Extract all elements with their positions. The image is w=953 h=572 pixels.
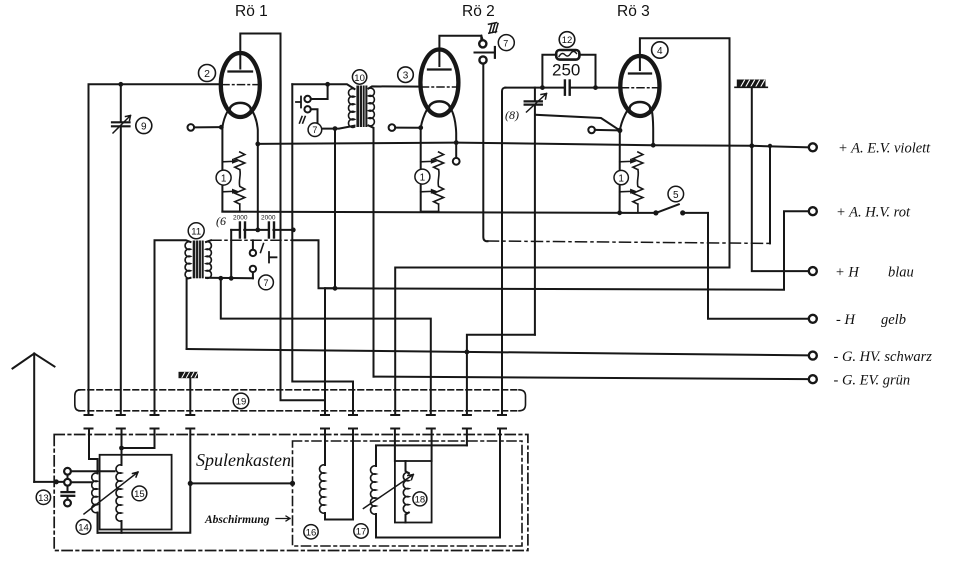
trimmer capacitor 9 — [112, 84, 131, 415]
wire transformer11 bottom to coil18 line (y=318.6) — [221, 278, 431, 415]
wire shield bus to right box — [190, 481, 295, 486]
svg-text:- G. HV. schwarz: - G. HV. schwarz — [834, 349, 933, 365]
node dot ground riser on violett line — [749, 143, 754, 148]
svg-text:blau: blau — [888, 264, 914, 280]
wire transformer11 right-top (dash-dot to cap6 net) — [206, 240, 292, 242]
label circle 1 (Rö3) — [614, 170, 628, 184]
wire schwarz junction down to band — [466, 352, 468, 415]
terminal +H blau — [809, 264, 914, 280]
svg-text:+ A. H.V. rot: + A. H.V. rot — [836, 205, 911, 221]
svg-text:9: 9 — [141, 122, 147, 133]
text Abschirmung with arrow — [204, 514, 290, 526]
label circle 19 — [233, 393, 249, 409]
node dot cathode Rö1 on A-line — [255, 142, 260, 147]
wire transformer11 left-bottom to schwarz bus — [187, 278, 191, 349]
jack 7 (I) label I — [261, 244, 264, 253]
tube Rö2 cathode right leg — [452, 110, 460, 165]
svg-text:1: 1 — [221, 173, 227, 184]
wire coil17 bottom — [375, 514, 377, 538]
jack 7 (I) upper contact — [250, 240, 256, 256]
wire Rö3 grid line — [505, 87, 621, 89]
transformer 11 core — [193, 241, 204, 279]
wire into coil15 top (junction of wires 121.5 and 154.5) — [119, 429, 154, 466]
svg-text:16: 16 — [306, 528, 317, 539]
grid-bias line (y=211.5 bus) — [222, 212, 656, 213]
antenna connector 13 — [34, 468, 74, 507]
wire violett riser — [769, 146, 771, 244]
wire cap6 net jog to rot bus — [292, 240, 333, 288]
label circle 7 (III switch) — [498, 35, 514, 51]
label circle 3 — [398, 67, 414, 83]
coil 18 box — [395, 461, 432, 523]
jack 7 (I) lower contact — [250, 266, 256, 279]
coil 18 — [403, 461, 408, 523]
label circle 10 — [352, 70, 366, 84]
label circle 16 — [304, 525, 318, 539]
label circle 7 (jack I) — [259, 275, 274, 290]
tube Rö3 envelope — [620, 56, 659, 116]
terminal -G.HV schwarz — [809, 349, 932, 365]
wire tube Rö2 plate to switch III — [439, 36, 481, 50]
wire into coil18 box — [394, 429, 396, 462]
plug tick bars upper row (at band) — [85, 414, 507, 416]
svg-text:(8): (8) — [505, 108, 519, 122]
label circle 4 — [652, 42, 668, 58]
jack 7 (II) frame mark — [296, 97, 301, 108]
label circle 17 — [354, 524, 368, 538]
label circle 1 (Rö1) — [216, 170, 231, 185]
svg-text:2000: 2000 — [261, 215, 276, 222]
svg-text:250: 250 — [552, 61, 580, 80]
cable band 19 lower dashed line — [79, 410, 520, 412]
wire grid bus Rö1 left — [89, 82, 221, 415]
wire grid-line corner down to band — [502, 88, 505, 415]
switch 7 (III) — [475, 23, 499, 64]
wire switch III down to dash bus — [483, 64, 487, 242]
wire into coil14 top — [89, 429, 98, 474]
cathode bus (violett line) — [258, 143, 809, 148]
trimmer capacitor 8 — [525, 88, 547, 335]
coil 16 — [320, 465, 325, 513]
coupling arrow coils 14/15 — [84, 472, 138, 514]
tube Rö3 cathode — [630, 102, 651, 116]
svg-text:+ A. E.V. violett: + A. E.V. violett — [838, 141, 931, 157]
series capacitor in grid line — [565, 81, 570, 95]
svg-text:Rö 3: Rö 3 — [617, 3, 650, 20]
wire connector13 to coil14 — [71, 481, 92, 483]
svg-text:Spulenkasten: Spulenkasten — [196, 450, 291, 470]
transformer 10 primary winding — [349, 89, 355, 128]
svg-text:14: 14 — [78, 523, 89, 534]
label circle 13 — [36, 490, 50, 504]
wire trimmer 8 to Rö3 grid junction — [536, 115, 620, 131]
svg-text:10: 10 — [354, 73, 365, 84]
fuse 12 — [540, 50, 598, 90]
svg-text:1: 1 — [420, 172, 426, 183]
svg-text:3: 3 — [403, 71, 409, 82]
wire tube Rö1 plate to top bus — [240, 34, 280, 54]
wire coil16 bottom to riser — [325, 429, 353, 520]
svg-text:(6: (6 — [216, 214, 226, 228]
label circle 12 — [559, 32, 575, 48]
wire ground to blau terminal — [752, 87, 809, 271]
svg-text:13: 13 — [38, 493, 49, 504]
potentiometer 1 of Rö3 — [620, 130, 643, 212]
label circle 9 — [136, 118, 152, 134]
terminal +A.EV violett — [809, 141, 931, 157]
tube Rö1 cathode — [230, 103, 251, 117]
svg-text:7: 7 — [312, 125, 317, 135]
wire into coil16 top — [324, 429, 326, 466]
svg-text:2000: 2000 — [233, 215, 248, 222]
jack 7 (II) label II — [300, 117, 306, 124]
wire transformer10 secondary bottom to gruen bus — [369, 126, 374, 377]
chassis hatch symbol at band — [179, 372, 199, 415]
tube Rö1 cathode right leg — [253, 111, 258, 228]
terminal -G.EV gruen — [809, 372, 910, 388]
label circle 11 — [188, 223, 204, 239]
tube Rö2 grid cap terminal — [389, 124, 424, 131]
wire transformer10 secondary top to Rö2 grid — [369, 86, 421, 88]
tube Rö1 anode — [229, 53, 253, 72]
wire dash bus to violett riser (dash-dot) — [488, 241, 771, 243]
transformer 10 core — [356, 86, 367, 128]
tube Rö3 cathode left leg — [620, 110, 628, 130]
svg-text:7: 7 — [263, 278, 268, 288]
potentiometer 1 of Rö2 — [421, 128, 444, 212]
wire band into coil18 box right — [431, 429, 433, 462]
transformer 10 secondary winding — [369, 88, 375, 126]
svg-text:19: 19 — [236, 397, 247, 408]
wire rot bus down to band — [324, 288, 326, 415]
schwarz bus (G.HV) — [187, 349, 809, 355]
transformer 11 right winding — [206, 242, 211, 279]
cable band 19 upper dashed line — [79, 389, 520, 391]
shield inner box right (dash-dot) — [293, 441, 523, 546]
svg-text:4: 4 — [657, 46, 663, 57]
wire right riser to bottom bus — [376, 429, 500, 538]
tube Rö2 cathode — [429, 101, 450, 115]
svg-text:5: 5 — [673, 190, 679, 201]
plug tick bars lower row (above boxes) — [85, 428, 507, 430]
coil 17 — [371, 466, 376, 514]
wire schwarz stub in box — [466, 429, 468, 446]
wire tube Rö3 plate to top bus and down — [640, 38, 730, 267]
tube Rö2 cathode left leg — [421, 110, 427, 128]
svg-text:- H: - H — [836, 312, 856, 328]
tube Rö3 cathode right leg — [651, 111, 656, 148]
terminal -H gelb — [809, 312, 906, 328]
tube Rö2 grid (dash-dot) — [422, 86, 458, 88]
tube Rö1 grid (dash-dot) — [222, 84, 259, 86]
wire cap6/jack net vertical — [292, 84, 353, 415]
jack 7 (II) lower contact — [304, 106, 333, 129]
svg-text:gelb: gelb — [881, 312, 906, 328]
svg-text:+ H: + H — [835, 264, 860, 280]
svg-text:17: 17 — [356, 527, 367, 538]
wire switch 5 to gelb terminal — [683, 213, 809, 319]
wire transformer10 primary bottom — [333, 126, 355, 289]
label circle 14 — [76, 520, 91, 535]
antenna symbol — [13, 354, 55, 482]
coil 14 — [92, 473, 98, 513]
tube Rö1 cathode left leg — [222, 111, 227, 128]
gruen bus (G.EV) — [374, 377, 809, 380]
wire transformer11 right-bottom node — [206, 276, 253, 281]
wire transformer10 primary top — [292, 82, 354, 89]
switch 5 — [617, 204, 685, 215]
svg-text:7: 7 — [503, 38, 508, 48]
svg-text:Rö 2: Rö 2 — [462, 3, 495, 20]
Spulenkasten outer box (dash-dot) — [54, 435, 528, 551]
node dot violett riser — [768, 144, 772, 148]
wire coil14 bottom — [97, 513, 99, 533]
jack 7 (II) upper contact — [304, 84, 327, 102]
wire coil15 bottom — [121, 521, 123, 533]
jack 7 (I) frame mark — [269, 252, 277, 263]
wire box bottom bus — [98, 429, 191, 533]
tube Rö2 anode — [428, 50, 451, 70]
label circle 18 — [413, 492, 427, 506]
wire transformer11 left-top to band — [155, 240, 191, 415]
tube Rö1 envelope — [221, 53, 260, 117]
svg-text:- G. EV. grün: - G. EV. grün — [834, 372, 911, 388]
label circle 7 (jack II) — [308, 123, 322, 137]
tube Rö3 anode — [629, 56, 651, 74]
label circle 2 — [199, 65, 216, 82]
anode supply bus (rot) — [325, 211, 809, 290]
svg-text:18: 18 — [415, 495, 426, 506]
label circle 1 (Rö2) — [415, 169, 430, 184]
svg-text:2: 2 — [204, 68, 210, 80]
node dot shield bus left — [188, 481, 193, 486]
transformer 11 left winding — [185, 242, 190, 279]
svg-text:Rö 1: Rö 1 — [235, 3, 268, 20]
svg-text:12: 12 — [562, 35, 573, 46]
tube Rö3 grid cap terminal — [588, 127, 622, 134]
coil 15 — [116, 465, 121, 521]
coil box left (solid) — [100, 455, 172, 530]
potentiometer 1 of Rö1 — [222, 128, 244, 212]
label circle 5 — [668, 186, 684, 202]
wire cap6-left riser — [230, 230, 232, 278]
label circle 15 — [132, 486, 147, 501]
tube Rö3 grid (dash-dot) — [622, 87, 659, 89]
coupling arrow coils 17/18 — [363, 475, 413, 509]
ground symbol (hatched) — [735, 80, 767, 88]
tube Rö1 grid cap terminal — [188, 124, 224, 131]
cable band 19 right end — [519, 390, 526, 411]
svg-text:11: 11 — [191, 227, 201, 238]
capacitor pair 6 — [231, 223, 295, 238]
wire into coil17 top — [376, 445, 467, 466]
wire anode line to Spulenkasten (y=267.5) — [395, 268, 729, 416]
cable band 19 left end — [75, 390, 80, 411]
terminal +A.HV rot — [809, 205, 911, 221]
svg-text:Abschirmung: Abschirmung — [204, 514, 270, 526]
svg-text:15: 15 — [134, 489, 145, 500]
wire connector13 to coil15 — [71, 470, 115, 472]
wire tube Rö1 plate feed vertical — [281, 34, 326, 401]
tube Rö2 envelope — [420, 50, 458, 116]
svg-text:1: 1 — [618, 173, 624, 184]
wire trimmer 8 to schwarz junction — [467, 335, 535, 352]
